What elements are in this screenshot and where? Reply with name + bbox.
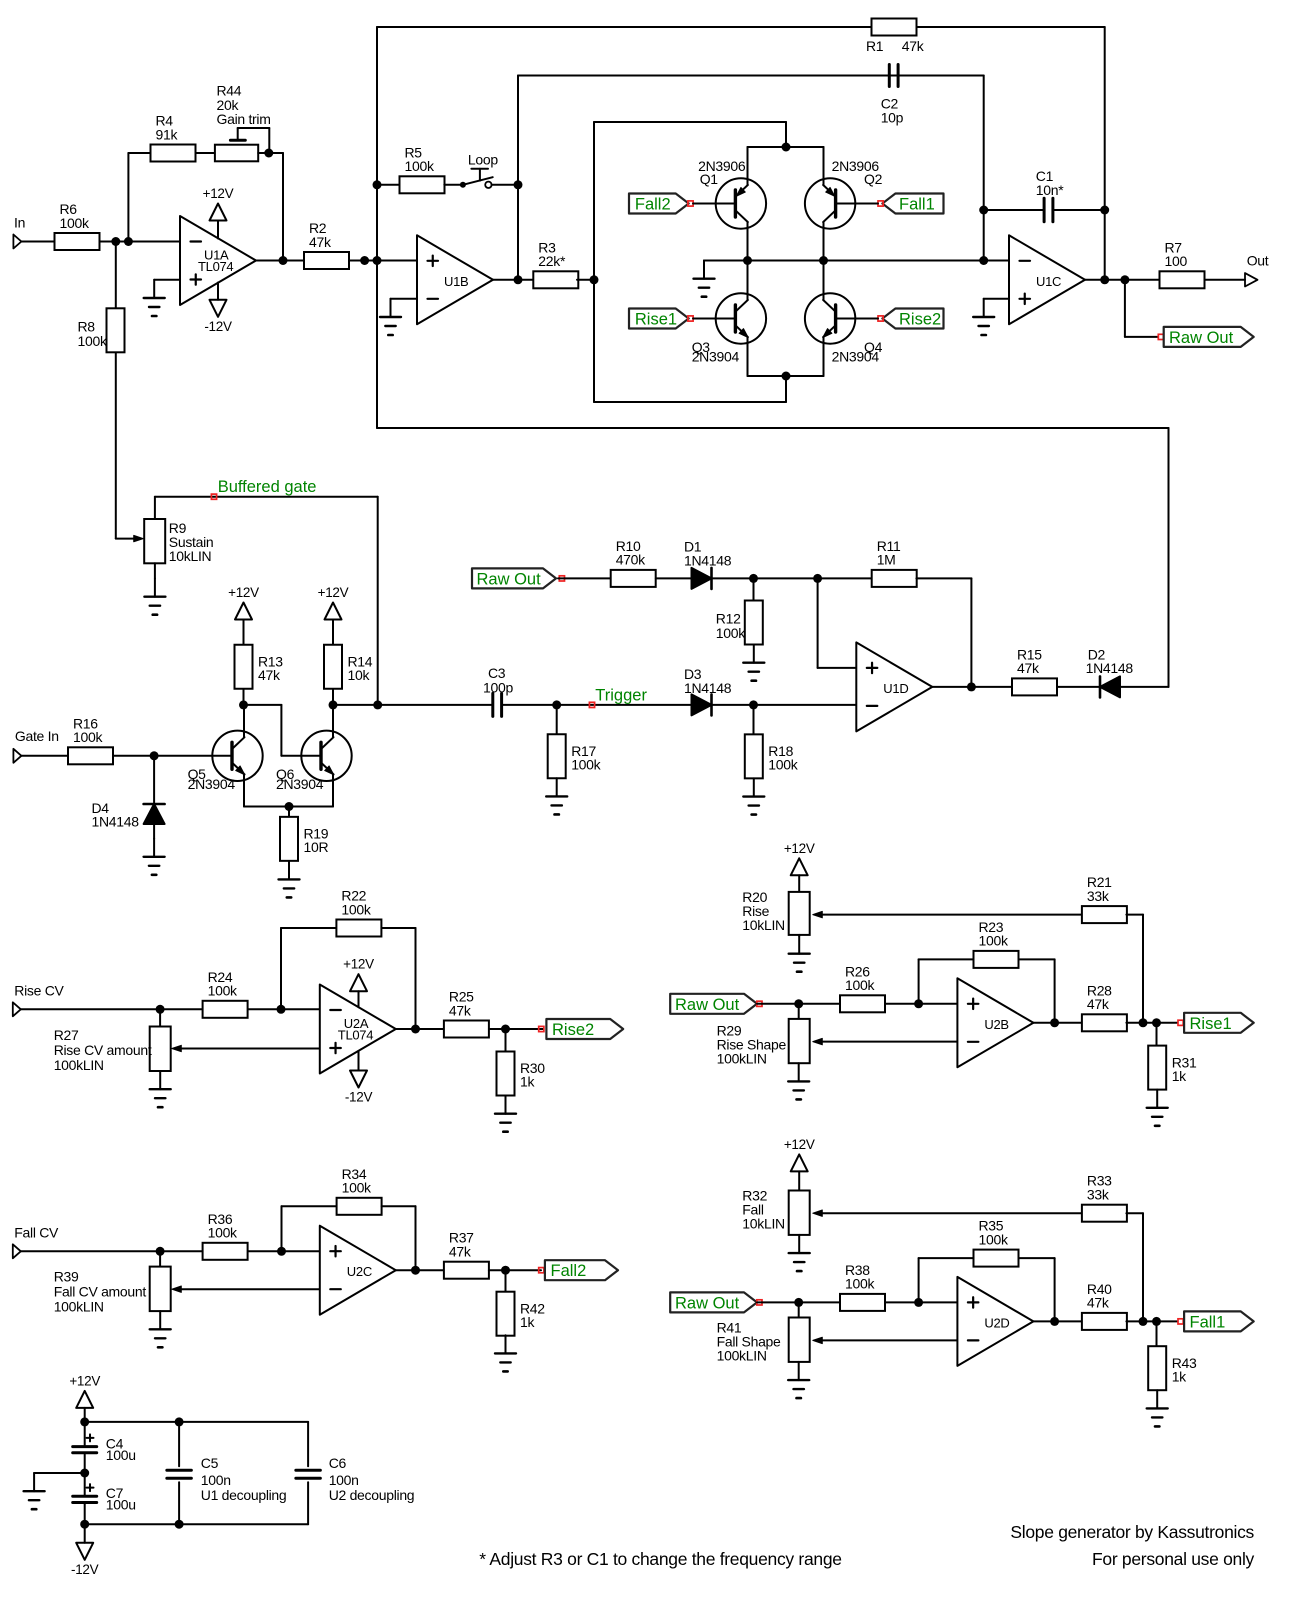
svg-text:1N4148: 1N4148 xyxy=(92,814,140,830)
svg-text:100k: 100k xyxy=(979,1231,1009,1247)
svg-text:100kLIN: 100kLIN xyxy=(717,1051,767,1067)
svg-text:U1B: U1B xyxy=(444,274,468,289)
svg-text:100k: 100k xyxy=(979,933,1009,949)
svg-text:100k: 100k xyxy=(341,901,371,917)
svg-text:U1 decoupling: U1 decoupling xyxy=(201,1487,287,1503)
svg-text:Q2: Q2 xyxy=(864,171,883,187)
svg-text:U1C: U1C xyxy=(1036,274,1061,289)
svg-text:U2B: U2B xyxy=(984,1017,1008,1032)
svg-text:47k: 47k xyxy=(1017,660,1040,676)
svg-text:Fall CV amount: Fall CV amount xyxy=(54,1283,147,1299)
svg-text:Fall1: Fall1 xyxy=(899,196,935,214)
svg-text:33k: 33k xyxy=(1087,888,1110,904)
svg-text:Fall2: Fall2 xyxy=(635,196,671,214)
svg-text:1k: 1k xyxy=(1172,1068,1187,1084)
svg-text:10kLIN: 10kLIN xyxy=(169,548,212,564)
svg-text:C6: C6 xyxy=(329,1455,347,1471)
svg-text:+12V: +12V xyxy=(318,585,349,600)
svg-text:100k: 100k xyxy=(768,757,798,773)
svg-text:100: 100 xyxy=(1165,253,1188,269)
svg-text:100u: 100u xyxy=(106,1497,136,1513)
svg-text:10n*: 10n* xyxy=(1036,182,1064,198)
svg-text:91k: 91k xyxy=(156,126,179,142)
svg-text:* Adjust R3 or C1 to change th: * Adjust R3 or C1 to change the frequenc… xyxy=(479,1549,841,1569)
svg-text:Slope generator by Kassutronic: Slope generator by Kassutronics xyxy=(1010,1522,1254,1542)
svg-text:1k: 1k xyxy=(1172,1368,1187,1384)
svg-text:U1D: U1D xyxy=(883,681,908,696)
svg-text:100k: 100k xyxy=(716,625,746,641)
svg-text:100kLIN: 100kLIN xyxy=(54,1057,104,1073)
svg-text:Gate In: Gate In xyxy=(15,728,59,744)
svg-text:2N3904: 2N3904 xyxy=(276,776,324,792)
svg-text:1k: 1k xyxy=(520,1074,535,1090)
svg-text:47k: 47k xyxy=(258,667,281,683)
svg-text:22k*: 22k* xyxy=(538,253,566,269)
svg-text:100n: 100n xyxy=(201,1472,231,1488)
svg-text:TL074: TL074 xyxy=(198,259,233,274)
svg-text:In: In xyxy=(14,215,25,231)
svg-text:Rise1: Rise1 xyxy=(1190,1015,1232,1033)
svg-text:TL074: TL074 xyxy=(338,1028,373,1043)
svg-text:100k: 100k xyxy=(78,333,108,349)
svg-text:For personal use only: For personal use only xyxy=(1092,1549,1255,1569)
svg-text:100k: 100k xyxy=(342,1180,372,1196)
svg-text:+12V: +12V xyxy=(228,585,259,600)
svg-text:1M: 1M xyxy=(877,552,896,568)
svg-text:10kLIN: 10kLIN xyxy=(742,1216,785,1232)
svg-text:1k: 1k xyxy=(520,1314,535,1330)
svg-text:-12V: -12V xyxy=(71,1562,99,1577)
svg-text:U2D: U2D xyxy=(984,1315,1009,1330)
svg-text:C5: C5 xyxy=(201,1455,219,1471)
svg-text:+12V: +12V xyxy=(784,1137,815,1152)
svg-text:Loop: Loop xyxy=(468,152,498,168)
svg-text:47k: 47k xyxy=(449,1002,472,1018)
svg-text:1N4148: 1N4148 xyxy=(1086,660,1134,676)
svg-text:47k: 47k xyxy=(1087,1295,1110,1311)
svg-text:470k: 470k xyxy=(616,552,646,568)
svg-text:47k: 47k xyxy=(1087,996,1110,1012)
svg-text:100k: 100k xyxy=(208,1225,238,1241)
svg-text:Raw Out: Raw Out xyxy=(675,1294,740,1312)
svg-text:1N4148: 1N4148 xyxy=(684,553,732,569)
svg-text:10p: 10p xyxy=(881,110,904,126)
svg-text:U2 decoupling: U2 decoupling xyxy=(329,1487,415,1503)
svg-text:Raw Out: Raw Out xyxy=(477,570,542,588)
svg-text:Rise2: Rise2 xyxy=(552,1021,594,1039)
svg-text:+12V: +12V xyxy=(343,957,374,972)
svg-text:100k: 100k xyxy=(60,215,90,231)
svg-text:10R: 10R xyxy=(304,839,329,855)
svg-text:100k: 100k xyxy=(845,977,875,993)
svg-text:100u: 100u xyxy=(106,1447,136,1463)
svg-text:Raw Out: Raw Out xyxy=(1169,329,1234,347)
svg-text:33k: 33k xyxy=(1087,1187,1110,1203)
svg-text:R27: R27 xyxy=(54,1027,79,1043)
svg-text:10kLIN: 10kLIN xyxy=(742,917,785,933)
svg-text:Rise2: Rise2 xyxy=(899,311,941,329)
svg-text:2N3904: 2N3904 xyxy=(832,349,880,365)
svg-text:47k: 47k xyxy=(449,1244,472,1260)
svg-text:100k: 100k xyxy=(571,756,601,772)
svg-text:2N3904: 2N3904 xyxy=(188,776,236,792)
svg-text:100k: 100k xyxy=(208,983,238,999)
svg-text:Rise CV amount: Rise CV amount xyxy=(54,1042,152,1058)
svg-text:Fall1: Fall1 xyxy=(1190,1313,1226,1331)
svg-text:Q1: Q1 xyxy=(700,171,719,187)
svg-text:47k: 47k xyxy=(902,38,925,54)
svg-text:100k: 100k xyxy=(845,1276,875,1292)
svg-text:100k: 100k xyxy=(73,729,103,745)
svg-text:-12V: -12V xyxy=(204,319,232,334)
svg-text:R1: R1 xyxy=(866,38,884,54)
svg-text:Gain trim: Gain trim xyxy=(217,111,271,127)
svg-text:Buffered gate: Buffered gate xyxy=(218,478,317,496)
svg-text:-12V: -12V xyxy=(345,1090,373,1105)
svg-text:U2C: U2C xyxy=(347,1264,372,1279)
svg-text:+12V: +12V xyxy=(203,186,234,201)
svg-text:100kLIN: 100kLIN xyxy=(717,1348,767,1364)
svg-text:47k: 47k xyxy=(309,234,332,250)
svg-text:Trigger: Trigger xyxy=(595,686,647,704)
svg-text:100kLIN: 100kLIN xyxy=(54,1298,104,1314)
svg-text:Fall2: Fall2 xyxy=(551,1262,587,1280)
svg-text:Out: Out xyxy=(1247,252,1269,268)
svg-text:Raw Out: Raw Out xyxy=(675,996,740,1014)
svg-text:10k: 10k xyxy=(348,667,371,683)
svg-text:Fall CV: Fall CV xyxy=(14,1225,59,1241)
svg-text:+12V: +12V xyxy=(69,1373,100,1388)
svg-text:100p: 100p xyxy=(483,679,513,695)
svg-text:Rise CV: Rise CV xyxy=(14,982,64,998)
svg-text:R39: R39 xyxy=(54,1268,79,1284)
svg-text:100n: 100n xyxy=(329,1472,359,1488)
svg-text:+12V: +12V xyxy=(784,841,815,856)
svg-text:Rise1: Rise1 xyxy=(635,311,677,329)
svg-text:100k: 100k xyxy=(405,158,435,174)
svg-text:2N3904: 2N3904 xyxy=(692,349,740,365)
svg-text:1N4148: 1N4148 xyxy=(684,680,732,696)
